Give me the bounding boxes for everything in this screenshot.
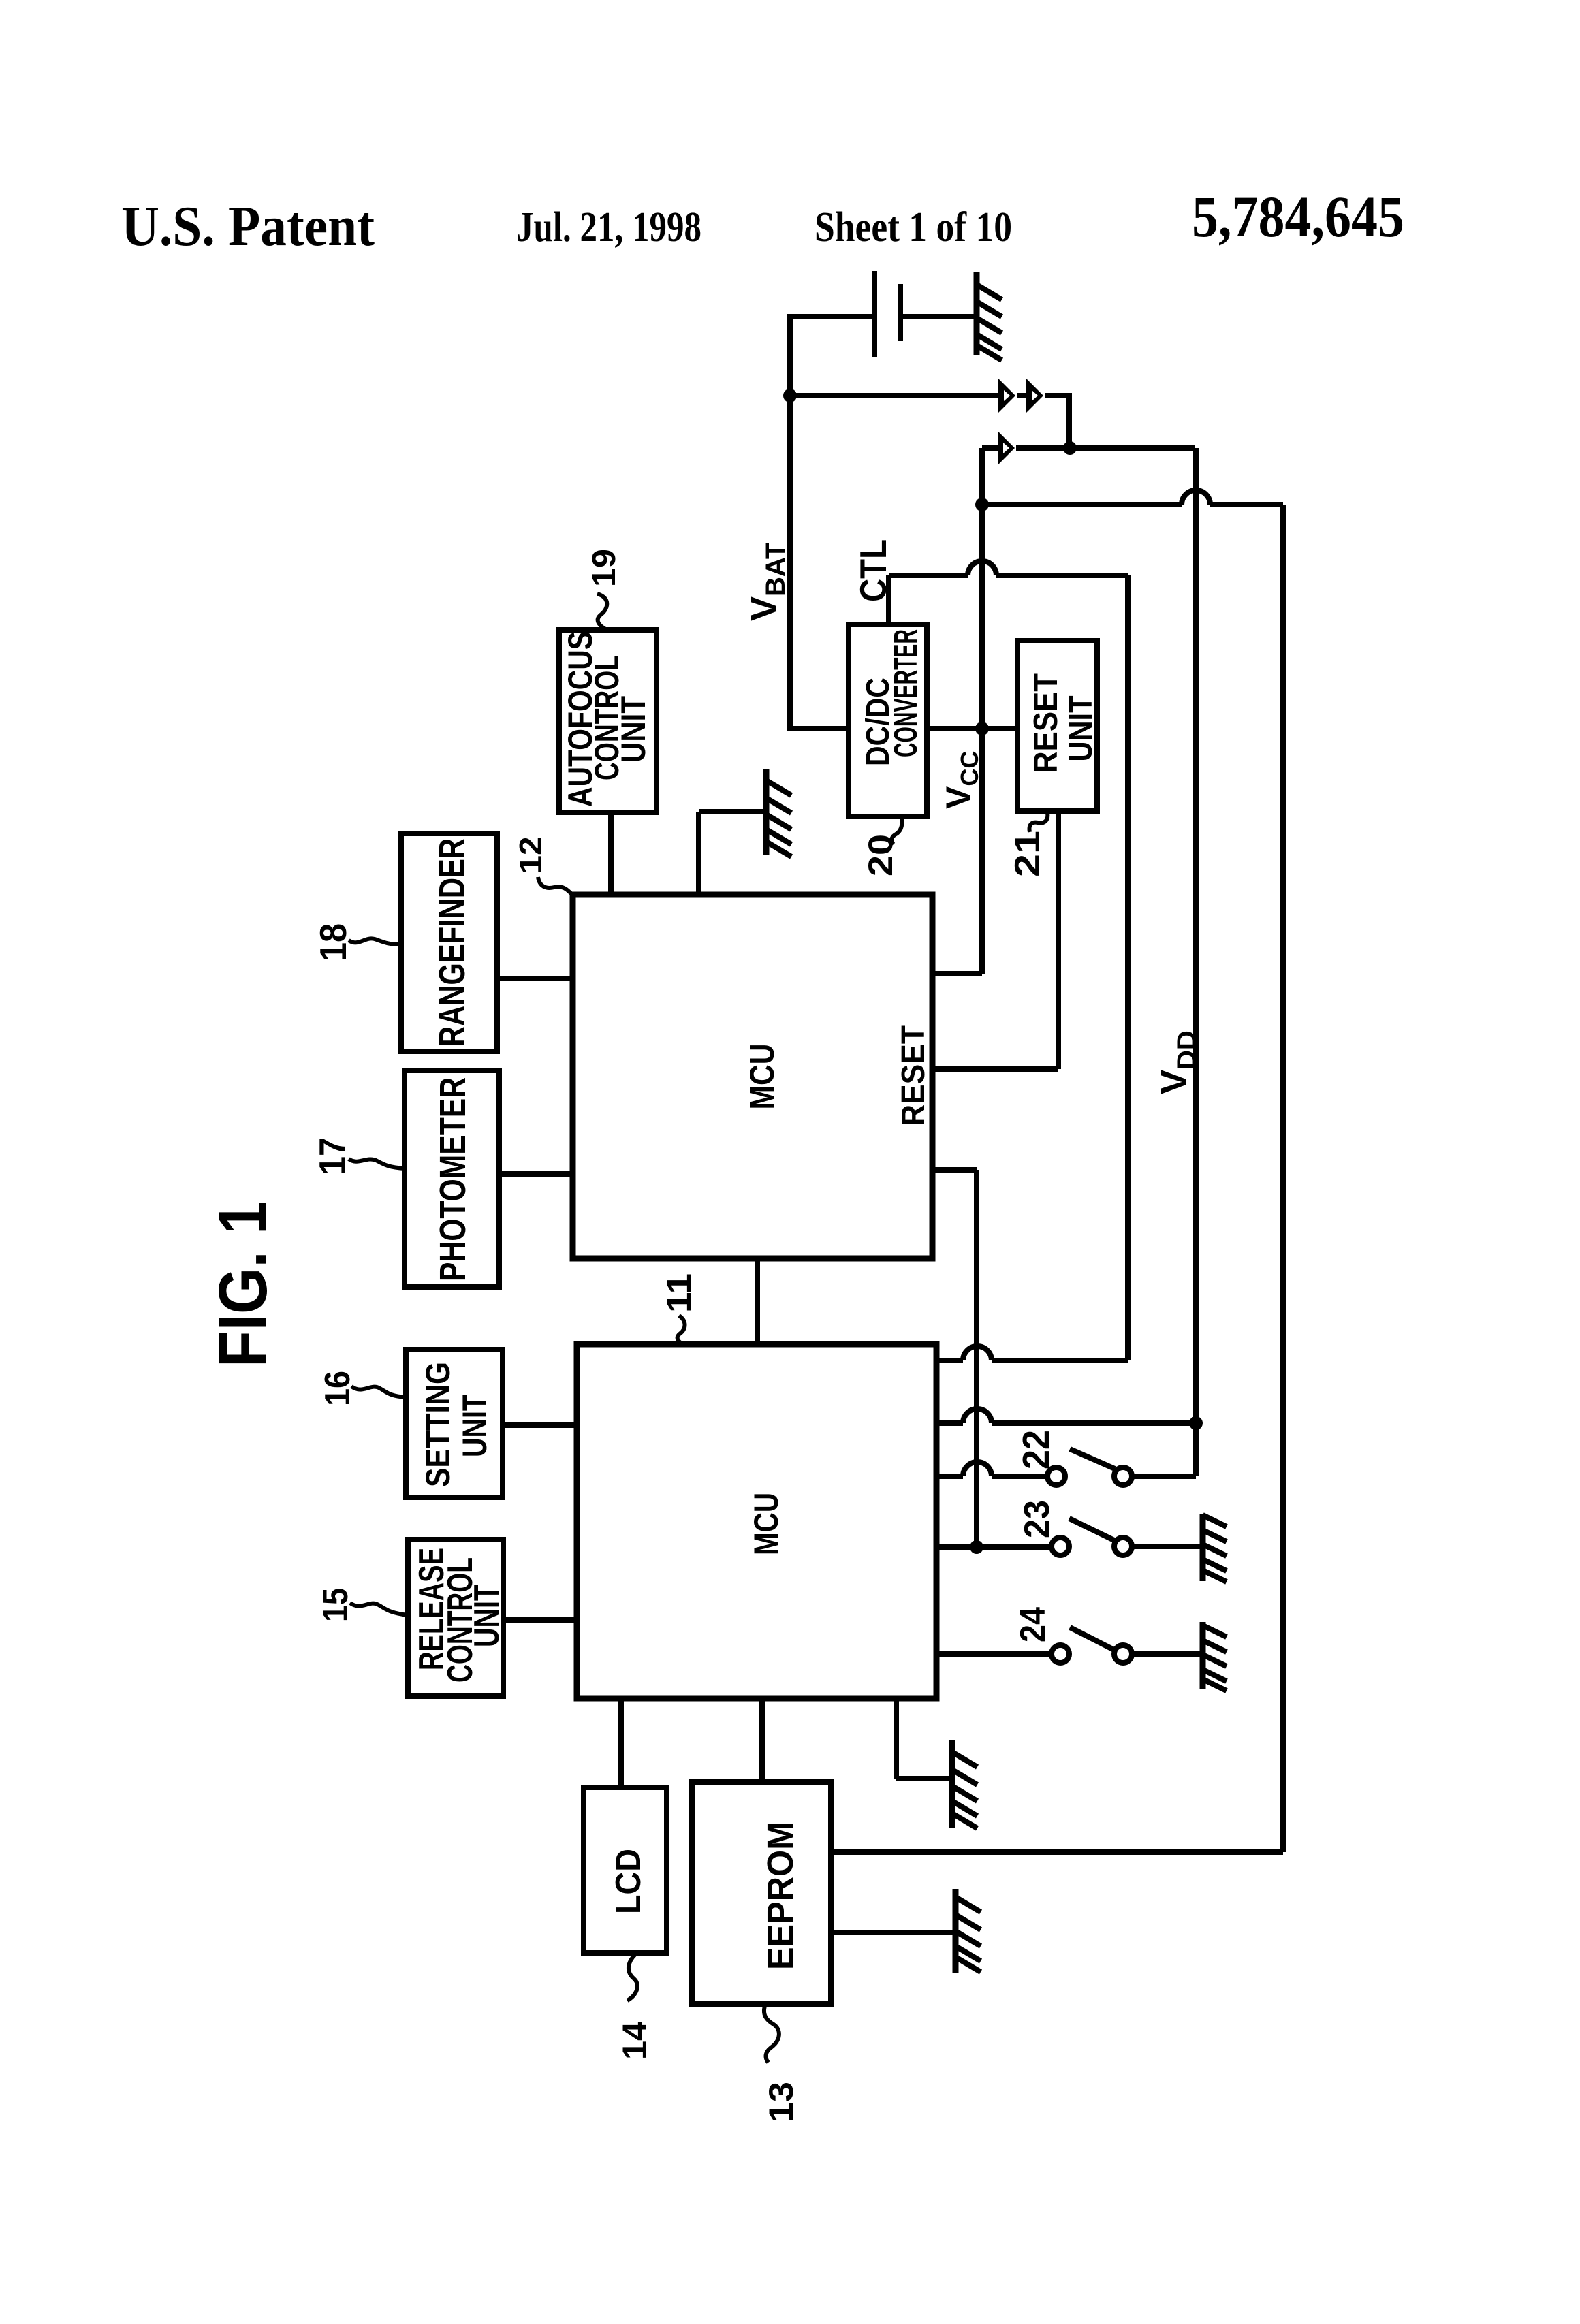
svg-text:11: 11	[660, 1273, 698, 1313]
wire setting unit to MCU 11	[503, 1422, 577, 1428]
wire MCU 11 pin to switch 24	[936, 1651, 1052, 1657]
svg-text:MCU: MCU	[743, 1044, 781, 1110]
wire CTL from DC/DC top with hop over VCC rail	[889, 575, 1128, 1360]
box DC/DC converter 20	[849, 624, 927, 816]
wire MCU 12 top pin to ground	[699, 812, 763, 895]
leader squiggle 21	[1030, 813, 1048, 832]
ground G2 (MCU 12)	[766, 769, 791, 857]
box rangefinder 18	[401, 833, 497, 1051]
wire rail A top stub into diode D3	[982, 445, 998, 451]
wire battery left lead and VBAT corner	[790, 317, 873, 396]
svg-text:Jul. 21, 1998: Jul. 21, 1998	[516, 204, 701, 251]
switch 24 lever	[1070, 1627, 1116, 1651]
switch 22 lever	[1070, 1449, 1115, 1469]
wire VCC rail A into MCU 12	[934, 971, 982, 976]
box autofocus control unit 19	[559, 630, 657, 812]
leader squiggle 15	[350, 1603, 408, 1615]
wire MCU 11 pin to VDD rail with hop	[936, 1420, 1196, 1426]
wire VDD rail bottom to switch 22	[1132, 1474, 1196, 1479]
wire RESET UNIT to MCU 12 reset pin	[934, 811, 1058, 1069]
svg-text:RESET: RESET	[1028, 673, 1064, 773]
switch 22 right contact	[1114, 1467, 1132, 1485]
wire MCU 11 to EEPROM	[759, 1698, 765, 1782]
leader squiggle 14	[627, 1954, 637, 2001]
box release control unit 15	[408, 1540, 503, 1696]
svg-text:12: 12	[513, 837, 548, 874]
battery B1 long plate	[872, 271, 877, 357]
svg-text:22: 22	[1015, 1430, 1057, 1469]
switch 24 right contact	[1114, 1645, 1132, 1663]
leader squiggle 11	[678, 1316, 685, 1344]
box LCD 14	[584, 1787, 667, 1953]
battery B1 short plate	[898, 284, 903, 341]
diode D1	[998, 379, 1015, 413]
box reset unit 21	[1017, 641, 1097, 811]
leader squiggle 19	[597, 594, 608, 631]
wire between diodes D1 D2	[1017, 393, 1027, 398]
box MCU 11	[577, 1344, 936, 1698]
wire DC/DC output VCC to RESET UNIT	[927, 726, 1017, 731]
diode D2	[1026, 379, 1043, 413]
diode D3	[998, 431, 1015, 465]
svg-text:SETTING: SETTING	[419, 1362, 457, 1487]
svg-text:23: 23	[1017, 1500, 1057, 1538]
wire MCU 11 to LCD	[618, 1698, 624, 1787]
switch 23 right contact	[1114, 1538, 1132, 1555]
svg-text:UNIT: UNIT	[614, 696, 652, 763]
hop of VDD pin wire over rail B	[963, 1409, 992, 1423]
svg-text:17: 17	[311, 1138, 353, 1175]
leader squiggle 13	[764, 2004, 779, 2063]
svg-text:LCD: LCD	[609, 1849, 648, 1914]
junction node rail A / rail E branch	[975, 498, 989, 511]
wire VCC rail A vertical	[979, 448, 985, 974]
leader squiggle 18	[349, 938, 401, 944]
junction node VDD / switch 22	[1189, 1416, 1203, 1430]
wire diode D2 output to corner down	[1045, 396, 1069, 448]
svg-text:19: 19	[586, 549, 622, 587]
box EEPROM 13	[692, 1782, 831, 2004]
ground G4 (switch 23)	[1203, 1514, 1227, 1582]
svg-text:CTL: CTL	[852, 539, 894, 602]
svg-text:5,784,645: 5,784,645	[1192, 184, 1404, 249]
junction node VCC / switch 23	[970, 1540, 983, 1554]
svg-text:U.S. Patent: U.S. Patent	[121, 195, 375, 258]
ground G6 (EEPROM)	[955, 1889, 981, 1973]
wire rail E bottom horizontal to EEPROM	[831, 1849, 1283, 1855]
svg-text:14: 14	[616, 2022, 654, 2060]
wire MCU 11 pin to switch 23	[936, 1544, 1052, 1550]
wire diode D3 output to VDD corner	[1016, 445, 1195, 451]
switch 24 left contact	[1052, 1645, 1069, 1663]
switch 23 left contact	[1052, 1538, 1069, 1555]
svg-text:UNIT: UNIT	[467, 1585, 507, 1647]
wire rangefinder to MCU 12	[497, 976, 573, 981]
hop of switch-22 wire over rail B	[963, 1462, 992, 1476]
svg-text:Sheet 1 of 10: Sheet 1 of 10	[815, 204, 1012, 251]
wire autofocus unit to MCU 12	[608, 812, 614, 895]
svg-text:16: 16	[318, 1371, 358, 1406]
wire node A to rail E with hop over VDD	[982, 502, 1283, 507]
junction node VCC	[975, 722, 989, 735]
wire battery to ground	[902, 314, 975, 319]
ground G1 (battery)	[977, 272, 1002, 360]
wire VBAT vertical to DC/DC converter	[790, 396, 849, 729]
switch 22 left contact	[1047, 1467, 1065, 1485]
junction node VBAT	[783, 389, 797, 402]
svg-text:RANGEFINDER: RANGEFINDER	[432, 838, 473, 1047]
wire bus between MCU 12 and MCU 11	[755, 1258, 760, 1344]
wire MCU 12 to rail B vertical	[934, 1170, 977, 1547]
leader squiggle 16	[351, 1386, 406, 1397]
ground G3 (MCU 11)	[952, 1740, 977, 1828]
wire rail E vertical right side	[1280, 505, 1286, 1852]
svg-text:CONVERTER: CONVERTER	[888, 629, 924, 757]
hop of CTL wire over VCC rail	[968, 561, 996, 575]
leader squiggle 17	[349, 1159, 405, 1168]
svg-text:15: 15	[316, 1588, 355, 1622]
svg-text:PHOTOMETER: PHOTOMETER	[432, 1077, 473, 1282]
ground G5 (switch 24)	[1203, 1622, 1227, 1691]
leader squiggle 20	[891, 817, 902, 844]
svg-text:18: 18	[312, 923, 354, 961]
box MCU 12	[573, 895, 932, 1258]
wire switch 24 to ground	[1132, 1651, 1200, 1657]
junction node diode output	[1063, 441, 1077, 455]
svg-text:21: 21	[1008, 831, 1047, 877]
svg-text:13: 13	[762, 2082, 800, 2122]
svg-text:RESET: RESET	[896, 1025, 932, 1126]
wire EEPROM lower pin to ground	[831, 1930, 953, 1935]
box setting unit 16	[406, 1350, 503, 1497]
hop of CTL wire over rail B	[963, 1346, 992, 1360]
switch 23 lever	[1069, 1518, 1114, 1540]
wire release control unit to MCU 11	[503, 1617, 577, 1623]
svg-text:24: 24	[1013, 1607, 1053, 1642]
hop of node-A wire over VDD rail	[1182, 490, 1210, 505]
wire node VBAT to diodes	[790, 393, 999, 398]
wire VDD rail vertical	[1193, 448, 1199, 1476]
svg-text:FIG. 1: FIG. 1	[205, 1201, 281, 1367]
wire MCU 11 pin to switch 22 with hop	[936, 1474, 1047, 1479]
wire MCU 11 bottom pin to ground	[896, 1698, 949, 1779]
wire photometer to MCU 12	[499, 1171, 573, 1177]
svg-text:UNIT: UNIT	[1063, 696, 1099, 762]
box photometer 17	[405, 1070, 499, 1287]
svg-text:UNIT: UNIT	[456, 1395, 494, 1457]
svg-text:EEPROM: EEPROM	[760, 1821, 801, 1970]
svg-text:MCU: MCU	[747, 1493, 785, 1555]
leader squiggle 12	[538, 877, 573, 895]
svg-text:20: 20	[862, 834, 900, 876]
wire switch 23 to ground	[1132, 1544, 1200, 1549]
